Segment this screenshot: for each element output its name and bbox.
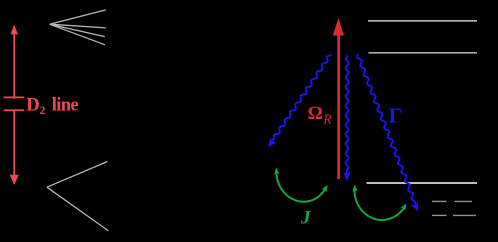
D2 arrow head up: [10, 25, 18, 35]
dashed row2 dash2: [453, 214, 476, 216]
excited level line upper right: [368, 20, 477, 22]
scale-break bar upper: [4, 97, 25, 99]
ground level line right: [367, 182, 478, 184]
tunneling arc right: [354, 187, 404, 220]
svg-text:D2line: D2line: [26, 95, 78, 117]
decay squiggle right head: [411, 202, 419, 212]
pump arrow head: [333, 18, 344, 36]
excited 5P hyperfine fan line F'=3: [50, 10, 106, 24]
dashed vibrational level row1 dash1: [432, 200, 447, 202]
dashed row1 dash2: [455, 200, 473, 202]
tunneling arc right head B: [401, 204, 407, 211]
excited fan line F'=1: [50, 24, 105, 36]
excited fan line F'=0: [50, 24, 105, 45]
decay squiggle right: [357, 55, 416, 207]
D2 arrow head down: [10, 175, 19, 185]
excited fan line F'=2: [50, 24, 106, 28]
D2 arrow shaft lower: [13, 111, 15, 178]
tunneling arc left head A: [274, 168, 279, 175]
tunneling arc left: [276, 170, 325, 202]
ground 5S hyperfine fan line F=2: [47, 162, 108, 188]
dashed row2 dash1: [432, 214, 447, 216]
decay squiggle center head: [343, 172, 351, 182]
decay squiggle left: [271, 55, 330, 143]
ground fan line F=1: [47, 187, 109, 231]
pump arrow shaft (right, red): [337, 34, 340, 179]
D2 transition double arrow (left, red) shaft upper: [13, 32, 15, 99]
excited level line lower right: [369, 52, 478, 54]
tunneling arc left head B: [322, 185, 328, 192]
svg-text:Γ: Γ: [389, 104, 402, 128]
svg-text:J: J: [300, 208, 311, 229]
scale-break bar lower: [4, 109, 25, 111]
decay squiggle center: [345, 56, 348, 176]
tunneling arc right head A: [352, 185, 357, 192]
decay squiggle left head: [268, 138, 277, 148]
